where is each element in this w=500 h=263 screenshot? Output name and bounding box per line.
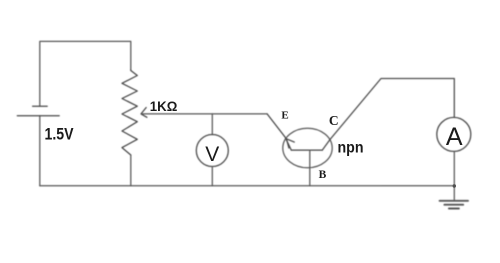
wire bottom — [40, 185, 455, 187]
transistor Q1 emitter arrow — [286, 139, 294, 148]
wire top loop — [40, 41, 131, 106]
ground bar 1 — [440, 200, 468, 202]
svg-text:V: V — [205, 143, 219, 166]
svg-text:A: A — [446, 123, 463, 151]
svg-text:1.5V: 1.5V — [45, 124, 75, 143]
transistor Q1 emitter — [267, 114, 291, 150]
wire voltmeter top lead — [211, 114, 213, 135]
wire ammeter bottom lead — [453, 152, 455, 200]
voltmeter M1 circle — [196, 135, 228, 167]
resistor R1 zigzag — [122, 70, 137, 155]
junction dot — [453, 184, 456, 187]
svg-text:1KΩ: 1KΩ — [150, 98, 178, 114]
wire left lower — [39, 116, 41, 186]
svg-text:npn: npn — [338, 140, 364, 157]
transistor Q1 base bar — [291, 149, 322, 151]
transistor Q1 envelope — [283, 128, 332, 168]
wire base lead — [309, 150, 311, 186]
wire wiper horizontal — [142, 113, 267, 115]
ammeter M2 circle — [437, 117, 471, 151]
wire voltmeter bottom lead — [211, 167, 213, 186]
wiper arrow head — [141, 108, 147, 118]
battery V1 plate long — [17, 115, 59, 117]
battery V1 plate short — [33, 105, 48, 107]
svg-text:C: C — [329, 113, 339, 128]
svg-text:B: B — [319, 169, 327, 181]
ground bar 2 — [444, 204, 463, 206]
ground bar 3 — [449, 208, 459, 210]
wire resistor bottom stub — [130, 155, 132, 186]
svg-text:E: E — [281, 110, 288, 122]
wire collector run — [322, 79, 454, 151]
